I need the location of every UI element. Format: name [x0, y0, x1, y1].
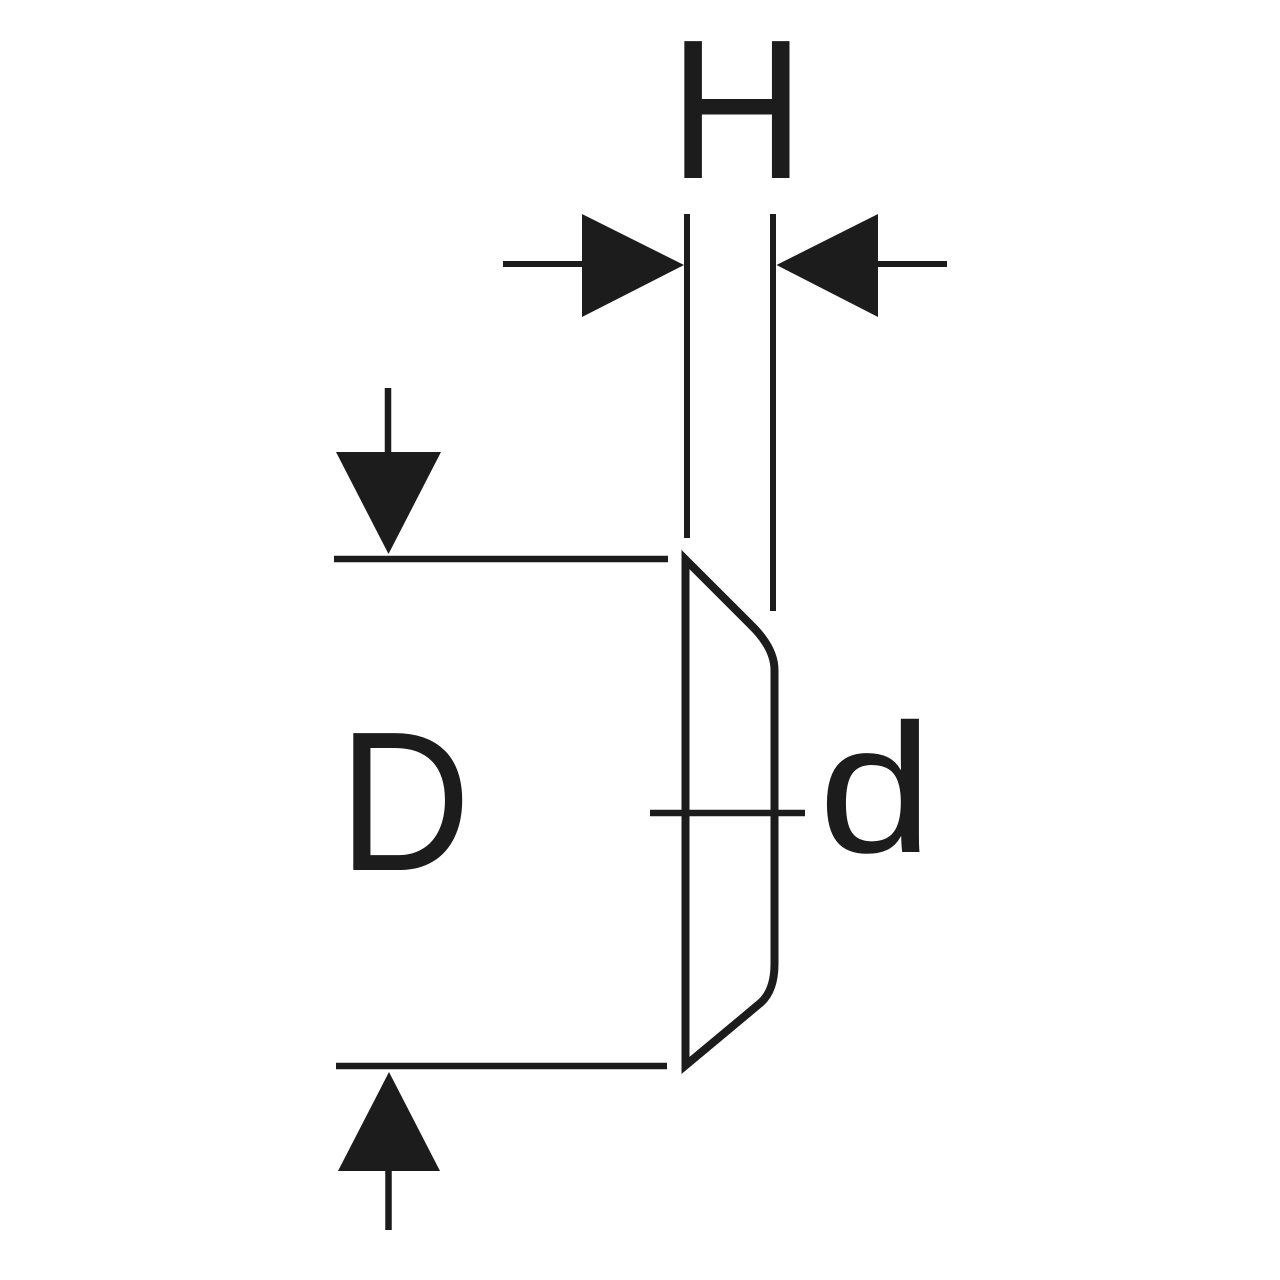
- arrow stem up (D dimension bottom): [385, 1167, 392, 1230]
- extension line right (H dimension): [770, 214, 776, 611]
- arrowhead right (points left at right face): [777, 214, 879, 317]
- arrowhead down (D dimension top): [336, 452, 441, 554]
- dimension line D bottom: [336, 1063, 667, 1070]
- arrow stem down (D dimension top): [385, 388, 392, 456]
- dimension line D top: [334, 556, 668, 563]
- svg-text:D: D: [338, 690, 471, 912]
- leader line right (H dimension): [877, 261, 947, 267]
- extension line left (H dimension): [684, 214, 690, 538]
- svg-text:H: H: [669, 0, 805, 221]
- arrowhead up (D dimension bottom): [338, 1072, 440, 1171]
- svg-text:d: d: [818, 686, 932, 891]
- centerline through bore: [650, 810, 805, 817]
- part outline (sealing washer cross-section profile): [686, 560, 775, 1066]
- arrowhead left (points right at left face): [582, 214, 684, 317]
- leader line left (H dimension): [503, 261, 584, 267]
